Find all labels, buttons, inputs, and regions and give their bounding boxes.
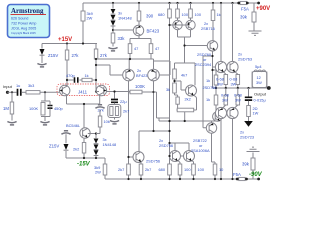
junction dots bottom rail	[236, 178, 239, 181]
svg-text:2W: 2W	[95, 170, 101, 175]
resistor 1k upper bias	[214, 75, 218, 85]
resistor 0R68 3W upper B	[236, 75, 240, 85]
svg-text:Copyright Black 2005: Copyright Black 2005	[11, 31, 36, 35]
svg-text:47: 47	[134, 46, 138, 51]
svg-text:2SC2394: 2SC2394	[195, 62, 212, 67]
ground below zener Z15V	[37, 64, 46, 67]
svg-text:2k7: 2k7	[145, 167, 151, 172]
resistor 100 bottom A	[178, 164, 182, 175]
svg-text:1N4148: 1N4148	[103, 142, 117, 147]
output line	[213, 87, 269, 89]
resistor 47 left	[128, 44, 132, 54]
svg-text:450p: 450p	[54, 106, 63, 111]
mirror base tie wire	[170, 24, 189, 26]
svg-text:47: 47	[155, 46, 159, 51]
resistor 2k7 left column	[127, 164, 131, 175]
feedback gate wire right JFET	[107, 91, 131, 93]
svg-text:4k7: 4k7	[181, 73, 187, 78]
zener Z15V top	[41, 44, 43, 64]
svg-text:3W: 3W	[256, 80, 262, 85]
resistor 390	[138, 2, 140, 4]
svg-text:2SD723: 2SD723	[240, 135, 254, 140]
capacitor 22u feedback	[114, 92, 116, 99]
resistor 3k9 2W top	[81, 11, 85, 21]
resistor 47 right	[149, 44, 153, 54]
ground below 1M	[7, 122, 16, 125]
ground zobel (solid)	[244, 121, 253, 127]
transistor BC546 current source	[80, 128, 90, 138]
svg-text:39k: 39k	[240, 15, 248, 20]
svg-text:10k: 10k	[104, 119, 110, 124]
BC546 emitter to 2k2	[83, 138, 85, 142]
svg-text:1N4148: 1N4148	[118, 16, 132, 21]
riser to lower nets	[154, 92, 170, 121]
ground below feedback shunt	[110, 121, 119, 124]
svg-text:27k: 27k	[98, 108, 104, 113]
junction to 1M	[11, 91, 13, 93]
svg-text:33k: 33k	[118, 36, 126, 41]
ground bottom-right	[247, 147, 260, 151]
transistor 2SB716 mirror right	[186, 20, 195, 29]
svg-text:27k: 27k	[100, 53, 108, 58]
output terminal dot	[267, 86, 271, 90]
svg-text:Input: Input	[3, 84, 13, 89]
transistor 2SB716 mirror left	[173, 20, 182, 29]
resistor 0R68 3W lower A	[225, 88, 227, 95]
transistor 2SD756 bottom middle	[133, 152, 144, 163]
resistor 10 bottom	[213, 164, 217, 175]
jog to 1k base resistors	[213, 70, 217, 75]
svg-text:2SB716: 2SB716	[201, 26, 215, 31]
wire 27k right into gate node	[96, 87, 99, 92]
resistor 33k	[111, 33, 115, 43]
cascode base loop right	[154, 61, 171, 75]
cascode base wire left	[96, 65, 123, 75]
svg-text:Z15V: Z15V	[49, 144, 59, 149]
svg-text:2SD756: 2SD756	[203, 85, 217, 90]
resistor 4k7	[173, 69, 177, 79]
svg-text:Z15V: Z15V	[48, 53, 58, 58]
svg-text:+90V: +90V	[256, 6, 270, 12]
resistor 39k top-right	[253, 3, 255, 31]
junction dots top rail	[237, 2, 240, 5]
ground below 100K	[40, 122, 49, 125]
resistor pair box 27k/2k7 feedback shunt	[114, 103, 116, 105]
Vbe multiplier base wire	[175, 81, 186, 90]
transistor BF423 cascode right	[148, 69, 160, 81]
svg-text:2SD756: 2SD756	[159, 143, 173, 148]
svg-text:1k: 1k	[85, 73, 89, 78]
svg-text:0·015μ: 0·015μ	[254, 98, 266, 103]
svg-text:27k: 27k	[72, 53, 80, 58]
transistor 2SD763 output upper A	[215, 61, 226, 72]
mirror emitter jogs	[178, 161, 194, 165]
top mirror resistor 100 A	[176, 2, 178, 4]
JFET source join wires	[67, 96, 100, 128]
emitter to 2k7 right	[140, 162, 142, 164]
title block	[8, 5, 50, 38]
JFET J411 right	[96, 85, 106, 95]
resistor 27k right	[95, 44, 97, 88]
wire +90V rail to 3k9 dropper	[82, 3, 84, 44]
svg-text:22μ: 22μ	[120, 99, 127, 104]
svg-text:2k2: 2k2	[73, 147, 79, 152]
svg-text:1M: 1M	[3, 106, 9, 111]
zobel capacitor 0.015u	[248, 88, 250, 97]
fuse F5A bottom	[239, 177, 246, 180]
svg-text:1u: 1u	[16, 83, 20, 88]
svg-text:Output: Output	[254, 92, 267, 97]
Vbe emitter right drop	[194, 95, 197, 110]
ground top-right	[249, 31, 262, 35]
transistor 2SD763 output upper B	[227, 61, 238, 72]
transistor 2SD723 output lower B	[227, 107, 238, 118]
ground below 33k	[108, 48, 117, 51]
transistor 2SD760 driver upper	[207, 41, 217, 51]
svg-text:BF423: BF423	[136, 73, 147, 78]
resistor 0R68 3W lower B	[237, 88, 239, 95]
svg-text:2SD763: 2SD763	[238, 57, 252, 62]
svg-text:100: 100	[198, 167, 205, 172]
svg-text:2W: 2W	[87, 16, 93, 21]
base wire from vL	[129, 156, 134, 158]
resistor 680 bottom	[168, 164, 172, 175]
zobel resistor 2R 1W	[247, 106, 251, 117]
resistor 27k left	[66, 44, 68, 86]
compensation network 470p + 1k between drains	[67, 79, 96, 81]
transistor 2SD756 mirror A	[170, 151, 181, 162]
+90V top supply rail	[83, 2, 259, 4]
svg-text:3W: 3W	[217, 82, 223, 87]
transistor 2SD756 mirror B	[184, 151, 195, 162]
resistor 1M to ground	[11, 92, 13, 120]
net H121	[159, 120, 213, 122]
diode chain 3x 1N4148 upper	[112, 2, 114, 4]
svg-text:39k: 39k	[242, 162, 250, 167]
net H63	[175, 63, 196, 85]
JFET J411 left	[59, 85, 69, 95]
node wire H59	[96, 54, 154, 70]
long vertical 680 net	[169, 18, 171, 164]
svg-text:1W: 1W	[253, 111, 259, 116]
input wire	[8, 91, 17, 93]
svg-text:BF423: BF423	[147, 29, 160, 34]
wire diode chain to 33k	[112, 26, 114, 33]
wire cap to 3k3	[22, 91, 26, 93]
bottom -90V supply rail	[105, 178, 259, 180]
-15V rail	[66, 157, 105, 159]
svg-text:1k: 1k	[206, 97, 210, 102]
output inductor 5u4 with 12R 3W	[252, 72, 267, 89]
transistor bias lower	[213, 112, 223, 122]
capacitor 1u input	[18, 89, 21, 96]
matched pair box (red dashed)	[57, 84, 110, 96]
collectors to -90V rail	[221, 119, 233, 179]
resistor 1k lower bias	[214, 95, 218, 105]
base wire to BF423 stage1	[113, 29, 133, 31]
transistor BF423 stage1	[133, 25, 143, 35]
net H143 lower mirror collectors	[170, 143, 190, 151]
svg-text:-15V: -15V	[77, 162, 91, 168]
diode chain 3x 1N4148 lower	[94, 139, 99, 144]
+15V rail	[42, 43, 97, 45]
svg-text:JCGL Aug 2005: JCGL Aug 2005	[11, 27, 36, 31]
resistor 39k bottom-right	[252, 153, 254, 180]
2SD760 emitter drop	[212, 51, 214, 88]
BC546 base wire	[88, 134, 96, 139]
svg-text:2k2: 2k2	[185, 97, 191, 102]
svg-text:470p: 470p	[66, 73, 75, 78]
svg-text:2SA1006A: 2SA1006A	[191, 148, 210, 153]
svg-text:390: 390	[146, 14, 154, 19]
wire 3k3 to JFET gate	[40, 91, 60, 93]
fuse F5A top	[240, 1, 247, 4]
svg-text:2SD756: 2SD756	[146, 159, 160, 164]
net H56 to VAS rail	[203, 56, 213, 128]
collector split to 47R pair	[130, 36, 151, 44]
svg-text:626 Sound: 626 Sound	[11, 17, 28, 21]
feedback resistor 100K (horizontal)	[129, 91, 154, 93]
mirror collector trouser	[178, 30, 191, 63]
transistor 2SB722 driver lower	[206, 123, 216, 133]
svg-text:F5A: F5A	[241, 7, 249, 12]
svg-text:3k3: 3k3	[28, 83, 34, 88]
ground dome above 10k	[95, 105, 104, 108]
svg-text:J411: J411	[78, 90, 88, 95]
resistor 2k2 emitter	[82, 143, 86, 154]
svg-text:680: 680	[159, 167, 166, 172]
emitter jogs to 0R68	[224, 72, 238, 75]
resistor 10k base bias	[96, 110, 100, 134]
svg-text:2k7: 2k7	[123, 109, 129, 114]
transistor BF423 cascode left	[123, 69, 135, 81]
svg-text:F5A: F5A	[233, 172, 241, 177]
resistor 1k collector 2SD760	[212, 2, 214, 4]
svg-text:100: 100	[184, 167, 191, 172]
svg-text:-90V: -90V	[249, 172, 263, 178]
collector drops from cascode	[129, 81, 154, 164]
resistor 0R68 3W upper A	[224, 75, 228, 85]
horizontal resistor mid (VAS emitter)	[176, 109, 196, 111]
svg-text:1k: 1k	[217, 12, 221, 17]
svg-text:BC546L: BC546L	[66, 123, 81, 128]
resistor 3k9 2W bottom dropper	[104, 158, 106, 179]
ground above zener lower	[61, 131, 70, 134]
input terminal	[6, 91, 9, 94]
svg-text:100: 100	[182, 12, 189, 17]
svg-text:3W: 3W	[222, 98, 228, 103]
svg-text:1k: 1k	[206, 78, 210, 83]
transistor 2SD756 Vbe multiplier	[186, 85, 197, 96]
net H131 to lower mirror	[139, 131, 170, 152]
resistor 2k2 Vbe	[175, 93, 178, 97]
svg-text:3W: 3W	[235, 98, 241, 103]
collector wire to rail +90V upper right	[231, 2, 233, 4]
mirror base tie	[181, 155, 184, 157]
svg-text:+15V: +15V	[58, 37, 72, 43]
transistor 2SD723 output lower A	[215, 107, 226, 118]
top current mirror resistor 680	[168, 2, 170, 4]
svg-text:3k: 3k	[166, 87, 170, 92]
top mirror resistor 100 B	[189, 2, 191, 4]
svg-text:2k7: 2k7	[118, 167, 124, 172]
RC filter 100K parallel 450p	[41, 92, 50, 121]
resistor 100 bottom B	[192, 164, 196, 175]
svg-text:3W: 3W	[231, 82, 237, 87]
svg-text:100: 100	[195, 12, 202, 17]
svg-text:100K: 100K	[29, 106, 38, 111]
collector wire to rail +90V upper left	[220, 2, 222, 4]
resistor 3k3 input (horizontal)	[26, 91, 40, 94]
svg-text:680: 680	[158, 12, 165, 17]
svg-text:Armstrong: Armstrong	[11, 8, 44, 15]
svg-text:732 Power Amp: 732 Power Amp	[11, 22, 36, 26]
svg-text:100K: 100K	[135, 84, 145, 89]
resistor 2k7 right column	[139, 164, 143, 175]
zener Z15V lower	[65, 134, 67, 158]
VAS base feed wire	[185, 45, 208, 47]
resistor 3k	[174, 79, 176, 83]
upper output base stub	[213, 66, 216, 68]
svg-text:5μ4: 5μ4	[255, 64, 262, 69]
